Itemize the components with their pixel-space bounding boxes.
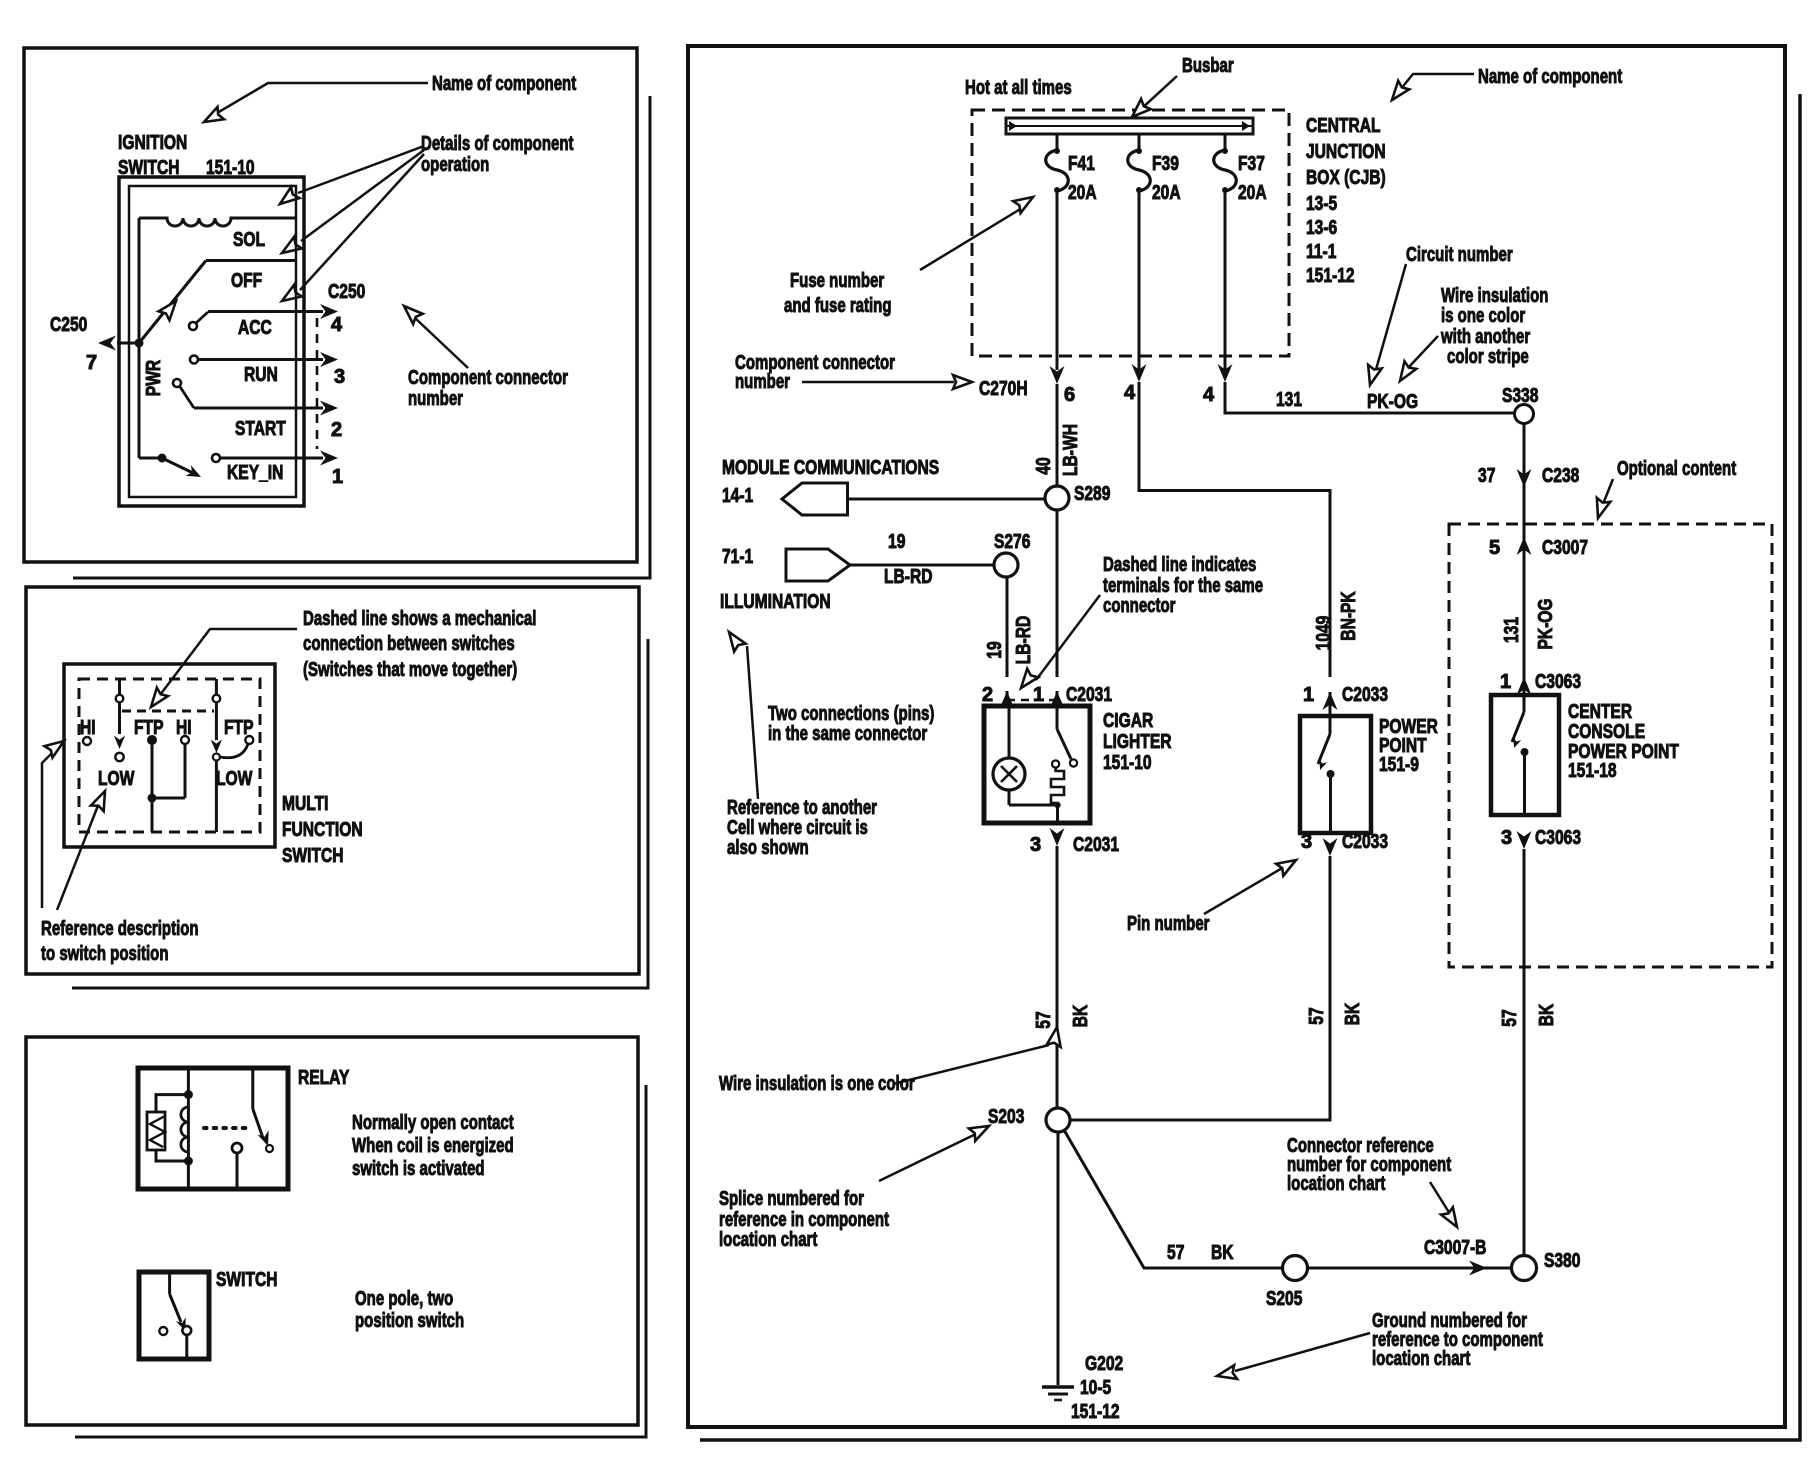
- annotation: Dashed line indicates terminals for the same connector: [1015, 554, 1263, 692]
- annotation: Circuit number: [1363, 244, 1513, 387]
- panel: legend box 3 shadow: [75, 1085, 646, 1437]
- contact: HI position pole 1: [83, 737, 91, 745]
- power box: Central Junction Box dashed boundary (hot at all times): [972, 110, 1289, 356]
- contact + wire: KEY_IN output to pin 1: [212, 451, 338, 466]
- label: connector C2033 top, pin 1: [1303, 684, 1388, 706]
- svg-text:BK: BK: [1070, 1004, 1092, 1027]
- wire: S276 down to cigar lighter pin 2 (19 LB-RD): [1000, 577, 1015, 709]
- annotation: Connector reference number for component location chart: [1287, 1135, 1463, 1231]
- svg-text:LOW: LOW: [98, 768, 134, 790]
- svg-text:Hot at all times: Hot at all times: [965, 77, 1072, 99]
- svg-text:14-1: 14-1: [722, 485, 753, 507]
- svg-text:LIGHTER: LIGHTER: [1103, 731, 1172, 753]
- svg-text:Circuit number: Circuit number: [1406, 244, 1513, 266]
- label: CENTER CONSOLE POWER POINT 151-18: [1568, 701, 1679, 782]
- svg-text:Wire insulation is one color: Wire insulation is one color: [719, 1073, 915, 1095]
- svg-text:57: 57: [1499, 1009, 1521, 1026]
- annotation: Name of component (box 1): [201, 73, 577, 128]
- component multifunction switch: case: [64, 664, 275, 847]
- switch symbol: movable arm: [170, 1272, 192, 1359]
- component center console power point: switch contact: [1510, 695, 1528, 815]
- component power point: case: [1300, 716, 1371, 833]
- label: CIGAR LIGHTER 151-10: [1103, 710, 1172, 774]
- svg-text:57: 57: [1306, 1007, 1328, 1024]
- svg-text:is one color: is one color: [1441, 305, 1525, 327]
- svg-text:F39: F39: [1152, 153, 1179, 175]
- svg-text:location chart: location chart: [1372, 1348, 1471, 1370]
- svg-text:SWITCH: SWITCH: [282, 845, 344, 867]
- svg-text:CIGAR: CIGAR: [1103, 710, 1154, 732]
- splice S338: [1502, 385, 1538, 424]
- label: F39 20A: [1152, 153, 1181, 204]
- splice S380: [1512, 1250, 1581, 1281]
- svg-text:S380: S380: [1544, 1250, 1580, 1272]
- label: circuit 40 LB-WH (rotated): [1033, 424, 1082, 476]
- ground G202 symbol: [1042, 1387, 1074, 1400]
- svg-text:BOX (CJB): BOX (CJB): [1306, 167, 1386, 189]
- svg-text:131: 131: [1276, 389, 1302, 411]
- connector C250 left tap: wire and arrow, pin 7: [50, 314, 139, 374]
- svg-text:C250: C250: [328, 281, 365, 303]
- svg-text:PK-OG: PK-OG: [1535, 598, 1557, 649]
- annotation: Reference description to switch position: [41, 735, 199, 965]
- svg-text:151-10: 151-10: [1103, 752, 1152, 774]
- svg-text:Cell where circuit is: Cell where circuit is: [727, 817, 868, 839]
- svg-text:Busbar: Busbar: [1182, 55, 1234, 77]
- busbar: supply busbar: [1006, 118, 1253, 134]
- contact + wire: ACC output to pin 4: [189, 304, 338, 330]
- svg-text:7: 7: [86, 352, 97, 374]
- svg-text:location chart: location chart: [1287, 1173, 1386, 1195]
- label: F41 20A: [1068, 153, 1097, 204]
- svg-text:also shown: also shown: [727, 837, 809, 859]
- relay contact: fixed contact and lower terminal wire: [232, 1143, 242, 1189]
- svg-text:1: 1: [1500, 671, 1511, 693]
- label: POWER POINT 151-9: [1379, 716, 1438, 776]
- label: circuit 19 LB-RD (rotated): [984, 616, 1035, 665]
- svg-text:location chart: location chart: [719, 1229, 818, 1251]
- relay: coil bus with junctions: [156, 1068, 193, 1189]
- lamp: cigar lighter illumination lamp: [993, 706, 1025, 805]
- svg-text:Details of component: Details of component: [421, 133, 574, 155]
- svg-text:LOW: LOW: [216, 768, 252, 790]
- svg-text:C250: C250: [50, 314, 87, 336]
- panel: legend box 1 (ignition switch example) shadow: [73, 96, 650, 578]
- svg-text:S289: S289: [1074, 483, 1110, 505]
- svg-text:LB-RD: LB-RD: [884, 566, 933, 588]
- svg-text:SOL: SOL: [233, 229, 265, 251]
- annotation: Wire insulation is one color with another color stripe: [1394, 285, 1548, 385]
- splice S276: [994, 531, 1030, 577]
- svg-text:FTP: FTP: [224, 717, 254, 739]
- switch pole 1: pivot and arm (headlamp dimmer): [114, 679, 125, 761]
- svg-text:reference in component: reference in component: [719, 1209, 889, 1231]
- annotation: Ground numbered for reference to component location chart: [1216, 1310, 1544, 1383]
- connector C238 pin 37: inline arrow: [1478, 465, 1579, 487]
- svg-text:BK: BK: [1211, 1242, 1234, 1264]
- panel: main example diagram shadow: [700, 94, 1800, 1440]
- component multifunction switch: dashed inner boundary: [79, 679, 260, 832]
- label: circuit 57 BK (cigar lighter, rotated): [1033, 1004, 1092, 1028]
- svg-text:BK: BK: [1536, 1003, 1558, 1026]
- svg-text:20A: 20A: [1238, 182, 1267, 204]
- fuse F41 20A: [1046, 134, 1069, 370]
- svg-text:S276: S276: [994, 531, 1030, 553]
- annotation: One pole two position switch: [355, 1288, 464, 1332]
- svg-text:C3007: C3007: [1542, 537, 1588, 559]
- svg-text:CENTRAL: CENTRAL: [1306, 115, 1381, 137]
- svg-text:position switch: position switch: [355, 1310, 464, 1332]
- svg-text:5: 5: [1489, 537, 1500, 559]
- annotation: Dashed line shows a mechanical connection between switches: [145, 608, 536, 711]
- svg-text:Pin number: Pin number: [1127, 913, 1210, 935]
- wire: S203 to splice S205 (57 BK): [1064, 1130, 1283, 1268]
- wire: center console power point 57 BK down to S380: [1523, 849, 1526, 1257]
- svg-text:C270H: C270H: [979, 378, 1028, 400]
- svg-text:to switch position: to switch position: [41, 943, 169, 965]
- splice S205: [1266, 1256, 1308, 1311]
- svg-text:C3063: C3063: [1535, 827, 1581, 849]
- svg-text:switch is activated: switch is activated: [352, 1158, 485, 1180]
- svg-text:Two connections (pins): Two connections (pins): [768, 703, 934, 725]
- svg-text:6: 6: [1064, 384, 1075, 406]
- annotation: Component connector number + label C270H: [735, 352, 1028, 400]
- component center console power point: case: [1491, 695, 1559, 815]
- svg-text:F41: F41: [1068, 153, 1095, 175]
- label: connector C2031 top, pins 2 and 1: [982, 684, 1112, 706]
- svg-text:LB-RD: LB-RD: [1013, 616, 1035, 665]
- svg-text:Wire insulation: Wire insulation: [1441, 285, 1548, 307]
- svg-text:PK-OG: PK-OG: [1367, 391, 1418, 413]
- svg-text:terminals for the same: terminals for the same: [1103, 575, 1263, 597]
- svg-text:One pole, two: One pole, two: [355, 1288, 453, 1310]
- wire: S338 down through C238 / C3007 to center console power point: [1523, 423, 1526, 695]
- connector C2033 pin 3: exit arrow: [1301, 831, 1388, 856]
- relay: case: [138, 1068, 288, 1189]
- mechanical link: dashed line between switch poles: [122, 710, 214, 713]
- svg-text:151-18: 151-18: [1568, 760, 1617, 782]
- svg-text:JUNCTION: JUNCTION: [1306, 141, 1386, 163]
- annotation: Details of component operation: [276, 133, 574, 307]
- svg-text:3: 3: [1301, 831, 1312, 853]
- wire: S203 to ground G202: [1057, 1132, 1060, 1385]
- annotation: Splice numbered for reference in component location chart: [719, 1120, 992, 1251]
- svg-text:151-12: 151-12: [1306, 265, 1355, 287]
- svg-text:PWR: PWR: [143, 359, 165, 396]
- annotation: Optional content: [1591, 458, 1736, 520]
- splice S289: [1045, 483, 1110, 510]
- svg-text:C2031: C2031: [1066, 684, 1112, 706]
- switch arm: OFF position arm with motion arrow: [135, 261, 297, 348]
- svg-text:C3007-B: C3007-B: [1424, 1237, 1486, 1259]
- component ignition switch: name label IGNITION SWITCH 151-10: [118, 132, 255, 179]
- label: circuit 57 BK (ground run): [1167, 1242, 1234, 1264]
- svg-text:FUNCTION: FUNCTION: [282, 819, 363, 841]
- annotation: Name of component (main panel): [1386, 66, 1622, 104]
- panel: legend box 2 frame: [26, 587, 639, 974]
- svg-text:1049: 1049: [1313, 616, 1335, 651]
- switch arm: KEY_IN arm: [139, 454, 204, 483]
- wire: fuse F39 output to power point (1049 BN-PK): [1139, 382, 1338, 716]
- connector C250 right: dashed connector boundary: [316, 318, 319, 449]
- svg-text:131: 131: [1501, 617, 1523, 643]
- connector C3007 pin 5: inline arrow: [1489, 537, 1588, 559]
- svg-text:connection between switches: connection between switches: [303, 633, 515, 655]
- svg-text:4: 4: [1203, 384, 1215, 406]
- svg-text:F37: F37: [1238, 153, 1265, 175]
- svg-text:4: 4: [1124, 382, 1136, 404]
- svg-text:4: 4: [331, 314, 343, 336]
- svg-text:C3063: C3063: [1535, 671, 1581, 693]
- label: circuit 57 BK (power point, rotated): [1306, 1002, 1364, 1025]
- svg-text:CENTER: CENTER: [1568, 701, 1633, 723]
- relay: dotted mechanical link: [204, 1126, 246, 1130]
- wire: cigar lighter 57 BK down to splice S203: [1056, 846, 1059, 1108]
- svg-text:BK: BK: [1342, 1002, 1364, 1025]
- svg-text:RELAY: RELAY: [298, 1067, 350, 1089]
- svg-text:57: 57: [1167, 1242, 1184, 1264]
- label: circuit 131 PK-OG: [1276, 389, 1418, 413]
- svg-text:1: 1: [1303, 684, 1314, 706]
- annotation: Wire insulation is one color: [719, 1026, 1064, 1095]
- panel: legend box 1 frame: [24, 48, 637, 562]
- svg-text:with another: with another: [1440, 326, 1530, 348]
- label: CENTRAL JUNCTION BOX (CJB) references: [1306, 115, 1386, 287]
- svg-text:Optional content: Optional content: [1617, 458, 1736, 480]
- svg-text:3: 3: [334, 366, 345, 388]
- svg-text:in the same connector: in the same connector: [768, 723, 927, 745]
- svg-text:1: 1: [332, 466, 343, 488]
- svg-text:connector: connector: [1103, 595, 1176, 617]
- svg-text:13-5: 13-5: [1306, 193, 1337, 215]
- svg-text:151-9: 151-9: [1379, 754, 1419, 776]
- panel: main example diagram frame: [688, 46, 1785, 1427]
- svg-text:START: START: [235, 418, 286, 440]
- cell reference: MODULE COMMUNICATIONS 14-1: [722, 457, 1045, 515]
- annotation: Reference to another cell where circuit is also shown: [723, 628, 877, 859]
- wire: S205 to splice S380 through C3007-B: [1308, 1261, 1512, 1276]
- contact + wire: RUN output to pin 3: [190, 352, 338, 367]
- svg-text:37: 37: [1478, 465, 1495, 487]
- svg-text:3: 3: [1501, 827, 1512, 849]
- relay coil: resistor element in box: [147, 1112, 165, 1150]
- optional content: dashed boundary box: [1449, 524, 1772, 967]
- fuse F37 20A: [1214, 134, 1237, 370]
- svg-text:S205: S205: [1266, 1288, 1302, 1310]
- svg-text:C2033: C2033: [1342, 684, 1388, 706]
- contact + wire: START output to pin 2: [173, 379, 338, 416]
- svg-text:Component connector: Component connector: [408, 367, 568, 389]
- component ignition switch: outer case: [119, 177, 304, 506]
- svg-text:13-6: 13-6: [1306, 217, 1337, 239]
- svg-text:MULTI: MULTI: [282, 793, 329, 815]
- svg-text:Reference to another: Reference to another: [727, 797, 877, 819]
- svg-text:C2031: C2031: [1073, 834, 1119, 856]
- contact FTP pole 2: circle with curved link to arm: [220, 736, 253, 758]
- heater element: cigar lighter: [1009, 760, 1064, 823]
- label: circuit 57 BK (center console, rotated): [1499, 1003, 1558, 1026]
- wire: fuse F37 output 131 PK-OG to splice S338: [1225, 382, 1514, 413]
- svg-text:G202: G202: [1085, 1353, 1123, 1375]
- panel: legend box 3 frame: [26, 1037, 638, 1425]
- svg-text:19: 19: [888, 531, 905, 553]
- svg-text:57: 57: [1033, 1011, 1055, 1028]
- connector C3063 pin 3: inline arrow: [1501, 827, 1581, 849]
- splice S203: [988, 1106, 1070, 1132]
- connector C270H: exit arrows from CJB: [1050, 364, 1233, 384]
- annotation: Fuse number and fuse rating: [784, 191, 1037, 317]
- svg-text:Name of component: Name of component: [432, 73, 576, 95]
- component cigar lighter: case: [984, 706, 1090, 823]
- svg-text:151-12: 151-12: [1071, 1401, 1120, 1423]
- coil: ignition switch solenoid winding SOL: [139, 218, 296, 226]
- label: F37 20A: [1238, 153, 1267, 204]
- svg-text:10-5: 10-5: [1080, 1377, 1111, 1399]
- svg-text:Fuse number: Fuse number: [790, 270, 884, 292]
- annotation: Component connector number (box 1): [399, 301, 568, 410]
- cell reference: ILLUMINATION 71-1 with circuit 19 LB-RD: [722, 531, 994, 588]
- svg-text:FTP: FTP: [134, 717, 164, 739]
- svg-text:C2033: C2033: [1342, 831, 1388, 853]
- connector C3063 pin 1: inline arrow: [1500, 671, 1581, 695]
- label: circuit 131 PK-OG (rotated, optional branch): [1501, 598, 1557, 649]
- switch symbol: second position contact: [159, 1327, 167, 1335]
- svg-text:KEY_IN: KEY_IN: [227, 462, 283, 484]
- svg-text:1: 1: [1033, 684, 1044, 706]
- svg-text:71-1: 71-1: [722, 546, 753, 568]
- svg-text:Splice numbered for: Splice numbered for: [719, 1188, 864, 1210]
- svg-text:HI: HI: [176, 717, 192, 739]
- svg-text:MODULE COMMUNICATIONS: MODULE COMMUNICATIONS: [722, 457, 939, 479]
- contact FTP pole 1: dot and wire to pole 2 HI contact: [147, 735, 189, 832]
- annotation: Pin number: [1127, 854, 1300, 935]
- svg-text:40: 40: [1033, 457, 1055, 474]
- svg-text:When coil is energized: When coil is energized: [352, 1135, 514, 1157]
- svg-text:(Switches that move together): (Switches that move together): [303, 659, 517, 681]
- svg-text:OFF: OFF: [231, 270, 262, 292]
- svg-text:CONSOLE: CONSOLE: [1568, 721, 1645, 743]
- connector C2031 pin 3: exit arrow: [1030, 828, 1119, 856]
- svg-text:Dashed line indicates: Dashed line indicates: [1103, 554, 1256, 576]
- svg-text:11-1: 11-1: [1306, 241, 1336, 263]
- svg-text:number: number: [408, 388, 463, 410]
- relay contact: movable arm (normally open): [253, 1068, 274, 1152]
- svg-text:20A: 20A: [1068, 182, 1097, 204]
- svg-text:2: 2: [982, 684, 993, 706]
- switch arm: cigar lighter contact: [1057, 706, 1077, 767]
- svg-text:20A: 20A: [1152, 182, 1181, 204]
- label: G202 10-5 151-12: [1071, 1353, 1123, 1423]
- svg-text:IGNITION: IGNITION: [118, 132, 187, 154]
- svg-text:RUN: RUN: [244, 364, 278, 386]
- switch symbol: case: [139, 1272, 209, 1359]
- svg-text:3: 3: [1030, 834, 1041, 856]
- svg-text:Normally open contact: Normally open contact: [352, 1112, 514, 1134]
- svg-text:Reference description: Reference description: [41, 918, 199, 940]
- svg-text:C238: C238: [1542, 465, 1579, 487]
- switch pole 2: pivot and arm: [211, 679, 222, 832]
- label: connector C250 right + pin numbers 4 3 2 1: [328, 281, 365, 488]
- svg-text:ILLUMINATION: ILLUMINATION: [720, 591, 831, 613]
- label: circuit 1049 BN-PK (rotated): [1313, 591, 1360, 650]
- svg-text:Dashed line shows a mechanical: Dashed line shows a mechanical: [303, 608, 536, 630]
- svg-text:19: 19: [984, 641, 1006, 658]
- label: MULTI FUNCTION SWITCH: [282, 793, 363, 867]
- svg-text:and fuse rating: and fuse rating: [784, 295, 892, 317]
- svg-text:color stripe: color stripe: [1447, 346, 1529, 368]
- relay inductor: winding bumps: [181, 1107, 188, 1152]
- svg-text:BN-PK: BN-PK: [1338, 591, 1360, 641]
- svg-text:ACC: ACC: [238, 317, 272, 339]
- svg-text:Name of component: Name of component: [1478, 66, 1622, 88]
- wire: power point 57 BK down and left to splice S203: [1070, 856, 1330, 1120]
- annotation: Normally open contact when coil is energized: [352, 1112, 514, 1180]
- svg-text:LB-WH: LB-WH: [1060, 424, 1082, 476]
- svg-text:SWITCH: SWITCH: [216, 1269, 278, 1291]
- component ignition switch: inner case: [129, 186, 296, 497]
- component power point: switch contact: [1316, 716, 1334, 833]
- connector C2031: dashed link between pins 1 and 2: [1007, 699, 1057, 702]
- annotation: Two connections (pins) in the same connector: [768, 703, 934, 745]
- svg-text:2: 2: [331, 419, 342, 441]
- annotation: Busbar: [1127, 55, 1234, 122]
- fuse F39 20A: [1128, 134, 1151, 370]
- wire: ignition switch internal bus PWR: [138, 218, 141, 458]
- svg-text:operation: operation: [421, 154, 489, 176]
- wire: S289 down to cigar lighter pin 1: [1050, 510, 1065, 709]
- svg-text:number: number: [735, 371, 790, 393]
- svg-text:HI: HI: [80, 717, 96, 739]
- wire: fuse F41 output 40 LB-WH down to splice S289: [1056, 384, 1059, 486]
- svg-text:S203: S203: [988, 1106, 1024, 1128]
- panel: legend box 2 shadow: [72, 639, 648, 988]
